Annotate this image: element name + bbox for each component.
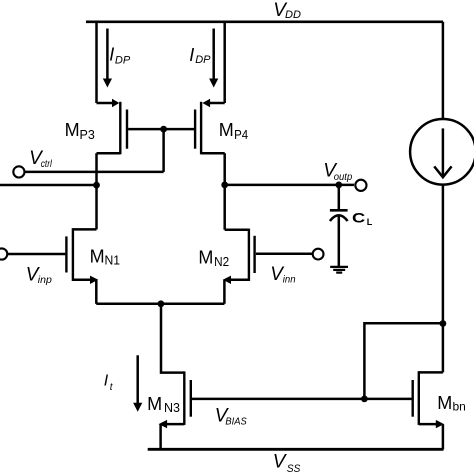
transistor MN1 bbox=[7, 228, 98, 284]
transistor MP3 bbox=[97, 99, 128, 155]
wire current source to Mbn drain bbox=[442, 185, 445, 373]
wire MP3 drain down bbox=[95, 153, 98, 229]
VDD rail bbox=[86, 20, 443, 23]
current source Ib bbox=[410, 119, 474, 185]
wire Vctrl tap vertical bbox=[162, 129, 165, 172]
wire Vctrl horizontal bbox=[25, 171, 164, 174]
node common gate dot bbox=[160, 126, 167, 133]
wire VDD to current source bbox=[442, 22, 445, 119]
svg-text:I: I bbox=[104, 373, 109, 390]
svg-text:M: M bbox=[65, 120, 80, 140]
svg-text:DP: DP bbox=[115, 54, 131, 66]
svg-text:M: M bbox=[90, 246, 105, 266]
label MP4 bbox=[219, 120, 248, 142]
wire tail line bbox=[96, 303, 224, 306]
svg-text:P3: P3 bbox=[80, 128, 95, 142]
transistor MP4 bbox=[195, 99, 225, 155]
svg-text:outp: outp bbox=[334, 171, 353, 183]
wire Mbn source to VSS bbox=[442, 424, 445, 449]
svg-text:M: M bbox=[437, 393, 452, 413]
label Vctrl bbox=[29, 148, 52, 170]
wire tail to MN3 drain bbox=[161, 304, 184, 373]
svg-text:SS: SS bbox=[287, 463, 301, 474]
ground bbox=[330, 267, 348, 273]
wire VBIAS gate line bbox=[192, 398, 412, 401]
svg-text:N3: N3 bbox=[164, 401, 180, 415]
capacitor CL bbox=[330, 185, 348, 267]
svg-text:bn: bn bbox=[453, 399, 466, 413]
wire MN3 source to VSS bbox=[159, 424, 162, 449]
wire MP3 source to VDD bbox=[95, 22, 98, 103]
svg-text:inn: inn bbox=[283, 274, 296, 286]
wire MN1 source down bbox=[95, 280, 98, 304]
transistor Mbn bbox=[413, 371, 444, 428]
label MN1 bbox=[90, 246, 121, 267]
svg-text:inp: inp bbox=[38, 274, 52, 286]
node VBIAS dot bbox=[361, 396, 368, 403]
svg-text:L: L bbox=[367, 217, 373, 227]
label IDP right bbox=[189, 45, 211, 66]
label MP3 bbox=[65, 120, 95, 142]
current arrow IDP left bbox=[103, 29, 112, 88]
svg-text:P4: P4 bbox=[234, 128, 248, 142]
current arrow IDP right bbox=[209, 29, 218, 88]
svg-text:BIAS: BIAS bbox=[225, 416, 247, 427]
label MN2 bbox=[198, 248, 229, 269]
node tail dot bbox=[158, 300, 165, 307]
transistor MN3 bbox=[159, 371, 191, 428]
gate lead MP4 to common node bbox=[164, 128, 194, 131]
node output dot bbox=[221, 182, 228, 189]
wire MN2 source down bbox=[223, 280, 226, 304]
transistor MN2 bbox=[223, 229, 313, 284]
label Vinp bbox=[26, 264, 52, 286]
label MN3 bbox=[147, 394, 180, 415]
terminal Vinn bbox=[313, 249, 324, 260]
wire output line bbox=[225, 184, 354, 187]
label Voutp bbox=[323, 160, 352, 183]
terminal Voutp bbox=[355, 180, 366, 191]
svg-text:N2: N2 bbox=[214, 255, 229, 269]
VSS rail bbox=[148, 448, 444, 451]
node MP3 drain dot bbox=[93, 182, 100, 189]
label VBIAS bbox=[215, 405, 247, 427]
wire bias branch bbox=[364, 323, 443, 399]
svg-text:M: M bbox=[147, 394, 162, 414]
wire MP4 drain down bbox=[223, 153, 226, 230]
svg-text:DP: DP bbox=[195, 54, 211, 66]
label VSS bbox=[273, 452, 301, 474]
terminal Vinp bbox=[0, 248, 7, 259]
wire MP4 source to VDD bbox=[223, 22, 226, 103]
gate lead MP3 to common node bbox=[128, 128, 164, 131]
label VDD bbox=[273, 0, 301, 21]
node bias branch dot bbox=[440, 320, 447, 327]
svg-text:ctrl: ctrl bbox=[41, 159, 53, 170]
terminal Vctrl bbox=[13, 166, 24, 177]
svg-text:DD: DD bbox=[285, 9, 301, 21]
svg-text:N1: N1 bbox=[105, 253, 121, 267]
node capacitor tap dot bbox=[335, 182, 342, 189]
label It bbox=[104, 373, 114, 393]
label CL bbox=[352, 211, 373, 228]
label IDP left bbox=[109, 44, 131, 66]
svg-text:M: M bbox=[198, 248, 213, 268]
label Mbn bbox=[437, 393, 466, 414]
svg-text:C: C bbox=[352, 211, 365, 226]
label Vinn bbox=[270, 264, 295, 286]
svg-text:M: M bbox=[219, 120, 234, 140]
svg-text:I: I bbox=[109, 44, 114, 64]
current arrow It bbox=[133, 355, 142, 411]
svg-text:I: I bbox=[189, 45, 194, 65]
wire left output stub bbox=[0, 184, 97, 187]
